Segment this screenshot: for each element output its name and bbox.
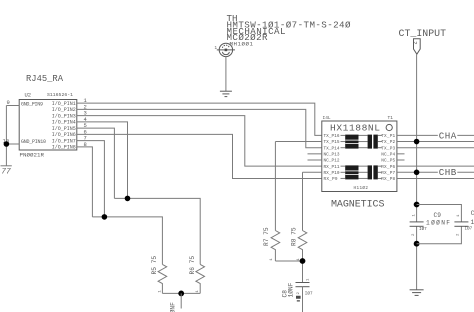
svg-text:1Ø: 1Ø (471, 219, 474, 226)
svg-text:NC_P13: NC_P13 (324, 153, 340, 158)
svg-text:CT_INPUT: CT_INPUT (399, 28, 447, 39)
svg-text:R6 75: R6 75 (189, 256, 196, 275)
svg-text:GND_PIN9: GND_PIN9 (21, 101, 43, 107)
svg-text:I/O_PIN6: I/O_PIN6 (52, 132, 76, 138)
svg-text:I/O_PIN3: I/O_PIN3 (52, 113, 76, 119)
svg-text:R8 75: R8 75 (291, 227, 298, 246)
svg-text:C8: C8 (282, 290, 289, 298)
svg-text:MH1ØØ1: MH1ØØ1 (230, 40, 254, 47)
svg-text:TX_P16: TX_P16 (324, 134, 340, 139)
svg-text:HX1188NL: HX1188NL (330, 123, 380, 134)
svg-text:I/O_PIN5: I/O_PIN5 (52, 126, 76, 132)
svg-text:T1: T1 (388, 115, 394, 121)
svg-text:I4L: I4L (323, 115, 331, 121)
svg-text:TX_P14: TX_P14 (324, 146, 340, 151)
svg-text:CHB: CHB (439, 167, 457, 178)
svg-text:MAGNETICS: MAGNETICS (331, 199, 385, 210)
svg-text:9: 9 (7, 99, 10, 106)
svg-text:NC_P12: NC_P12 (324, 159, 340, 164)
svg-text:S116526-1: S116526-1 (47, 92, 73, 98)
svg-text:TX_P2: TX_P2 (381, 140, 395, 145)
svg-text:NC_P4: NC_P4 (381, 153, 395, 158)
svg-text:I/O_PIN4: I/O_PIN4 (52, 120, 76, 126)
svg-text:R7 75: R7 75 (263, 227, 270, 246)
svg-text:I/O_PIN1: I/O_PIN1 (52, 101, 76, 107)
svg-text:PNØØ21R: PNØØ21R (20, 152, 45, 159)
svg-text:RX_P8: RX_P8 (381, 177, 395, 182)
svg-text:RX_P7: RX_P7 (381, 171, 395, 176)
svg-text:I/O_PIN8: I/O_PIN8 (52, 145, 76, 151)
svg-text:1ØNF: 1ØNF (170, 302, 177, 312)
svg-text:NC_P5: NC_P5 (381, 159, 395, 164)
svg-text:RX_P10: RX_P10 (324, 171, 340, 176)
svg-text:1ØNF: 1ØNF (288, 282, 295, 297)
svg-text:I/O_PIN2: I/O_PIN2 (52, 107, 76, 113)
svg-text:TX_P1: TX_P1 (381, 134, 395, 139)
svg-text:RJ45_RA: RJ45_RA (26, 74, 64, 84)
svg-text:TX_P15: TX_P15 (324, 140, 340, 145)
svg-text:I/O_PIN7: I/O_PIN7 (52, 138, 76, 144)
svg-text:IØ7: IØ7 (419, 227, 427, 232)
svg-text:C9: C9 (434, 212, 442, 219)
svg-text:GND_PIN10: GND_PIN10 (21, 139, 46, 145)
svg-text:H11Ø2: H11Ø2 (354, 186, 369, 191)
svg-text:R5 75: R5 75 (151, 256, 158, 275)
svg-text:IØ7: IØ7 (305, 291, 313, 296)
svg-text:1ØØNF: 1ØØNF (426, 220, 450, 227)
svg-text:2: 2 (412, 41, 419, 44)
svg-text:RX_P11: RX_P11 (324, 165, 340, 170)
svg-text:IØ7: IØ7 (465, 226, 473, 231)
svg-text:CHA: CHA (439, 130, 457, 141)
svg-text:RX_P9: RX_P9 (324, 177, 338, 182)
svg-text:RX_P6: RX_P6 (381, 165, 395, 170)
svg-text:TX_P3: TX_P3 (381, 146, 395, 151)
svg-text:U2: U2 (25, 92, 32, 99)
